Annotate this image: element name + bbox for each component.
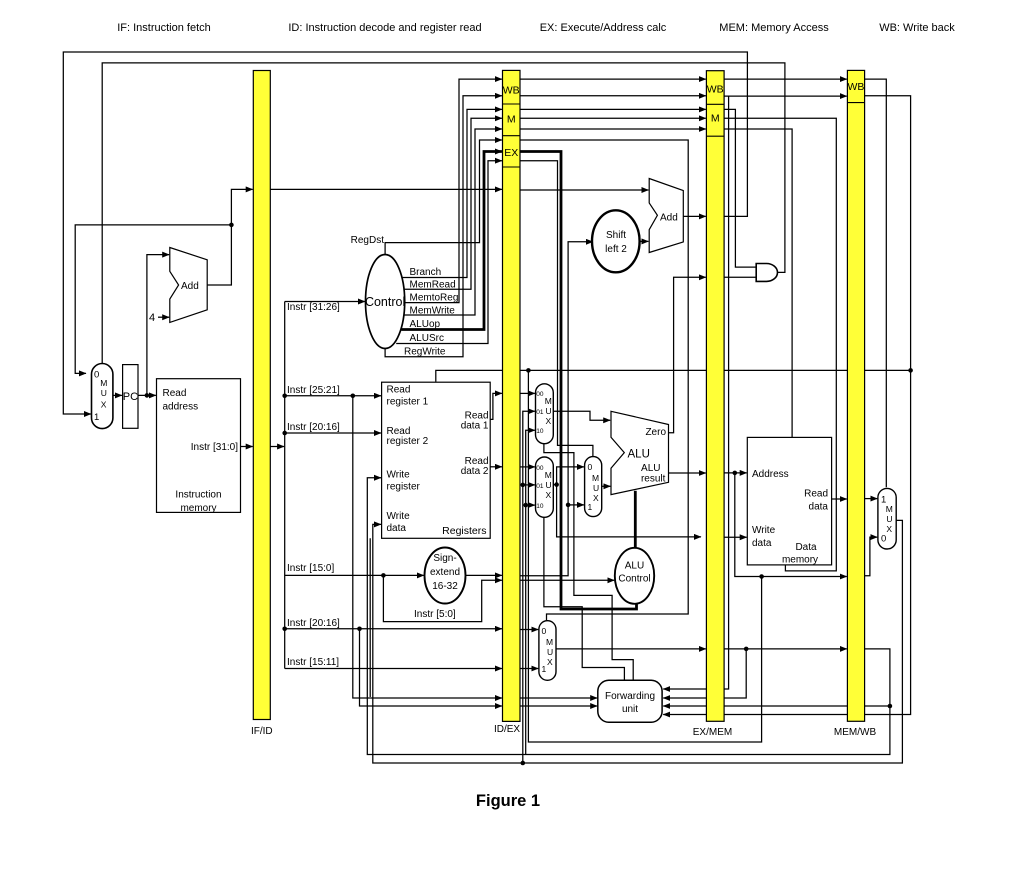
svg-text:address: address — [163, 402, 199, 413]
wire Instr[20:16] to ID/EX — [285, 628, 502, 630]
wire immediate branch to ALUSrc mux input 1 — [568, 504, 584, 506]
svg-text:Control: Control — [365, 295, 405, 309]
pipeline register IF/ID — [253, 71, 270, 720]
svg-text:M: M — [711, 113, 720, 125]
wire write data from EX/MEM to data memory — [724, 536, 747, 538]
wire instruction from IF/ID to bus — [270, 446, 284, 448]
svg-text:RegWrite: RegWrite — [404, 347, 446, 358]
svg-text:M: M — [545, 396, 552, 406]
wire PC+4 from ID/EX to branch Add — [520, 189, 648, 191]
label PC mux — [94, 370, 107, 423]
svg-text:WB: WB — [503, 85, 520, 97]
svg-text:register 2: register 2 — [387, 436, 429, 447]
svg-text:WB: WB — [707, 84, 724, 96]
wire Instr[31:26] to Control — [285, 301, 365, 303]
svg-text:4: 4 — [149, 312, 155, 324]
pipeline register EX/MEM — [706, 71, 724, 722]
wire Rd branch to forwarding unit right input — [663, 705, 890, 707]
svg-text:10: 10 — [536, 428, 544, 435]
svg-text:Instr [15:0]: Instr [15:0] — [287, 563, 334, 574]
wire write-back data forward vertical to mux A input 01 — [523, 411, 535, 763]
wire Instr[25:21] to read register 1 — [285, 395, 381, 397]
adder branch target — [649, 179, 683, 253]
svg-text:Sign-: Sign- — [433, 553, 456, 564]
svg-text:Instr [20:16]: Instr [20:16] — [287, 422, 340, 433]
wire MemWrite from EX/MEM to data memory top — [724, 129, 792, 437]
wire read data 1 from ID/EX to forward mux A — [520, 392, 535, 394]
AND gate branch — [756, 264, 777, 282]
wire MemRead row ID/EX to EX/MEM — [520, 117, 706, 119]
wire constant 4 into Add — [158, 316, 169, 318]
svg-text:X: X — [593, 493, 599, 503]
svg-text:M: M — [507, 114, 516, 126]
svg-text:U: U — [593, 483, 599, 493]
svg-text:Instr [31:0]: Instr [31:0] — [191, 442, 238, 453]
shift left 2 unit — [592, 210, 640, 272]
wire mux B output to write data — [553, 485, 701, 537]
labels mux ALUSrc — [588, 462, 600, 512]
wire read data 2 into ID/EX — [490, 466, 502, 468]
svg-text:ALU: ALU — [641, 463, 660, 474]
svg-text:Forwarding: Forwarding — [605, 691, 655, 702]
wire ALU result forward loop down left and up to RegWrite line — [528, 370, 761, 742]
svg-text:U: U — [546, 406, 552, 416]
wire MemWrite row ID/EX to EX/MEM — [520, 128, 706, 130]
wire EX/MEM forward branch to mux B input 10 — [526, 504, 535, 506]
wire data memory read data to MEM/WB — [832, 498, 847, 500]
svg-text:X: X — [547, 657, 553, 667]
svg-text:Data: Data — [795, 542, 817, 553]
svg-text:1: 1 — [94, 412, 99, 423]
wire mux B output branch to ALUSrc mux input 0 — [557, 467, 584, 485]
wire Add output to IF/ID — [207, 189, 253, 285]
wire ALUSrc control to ID/EX EX — [396, 161, 502, 344]
svg-text:Add: Add — [660, 213, 678, 224]
wire EX/MEM RegWrite branch down to forwarding unit — [663, 96, 728, 689]
svg-text:Figure 1: Figure 1 — [476, 792, 540, 810]
svg-text:M: M — [592, 473, 599, 483]
svg-text:Write: Write — [387, 511, 411, 522]
wire instruction bus vertical — [284, 302, 286, 669]
pipeline register ID/EX — [503, 70, 521, 721]
wire Rs from ID/EX to forwarding unit — [520, 697, 597, 699]
forwarding unit — [598, 680, 662, 722]
svg-text:Write: Write — [752, 525, 776, 536]
svg-text:M: M — [100, 378, 107, 388]
svg-text:left 2: left 2 — [605, 244, 627, 255]
wire ForwardA select from forwarding unit to mux A — [544, 444, 633, 680]
svg-text:EX: EX — [504, 147, 518, 159]
wire Instr[5:0] from ID/EX to ALU control — [520, 579, 615, 581]
wire Rs to ID/EX for forwarding unit — [353, 396, 502, 698]
svg-text:Write: Write — [387, 470, 411, 481]
svg-text:MEM/WB: MEM/WB — [834, 727, 877, 738]
mux forward A — [536, 384, 554, 444]
svg-text:Registers: Registers — [442, 525, 486, 537]
svg-text:1: 1 — [588, 502, 593, 512]
wire sign-extend output to ID/EX — [466, 574, 502, 576]
svg-text:Zero: Zero — [645, 427, 666, 438]
mux PC source — [92, 364, 113, 429]
wire ALU result down to MEM/WB — [735, 473, 847, 577]
svg-text:MemtoReg: MemtoReg — [410, 293, 459, 304]
svg-text:IF/ID: IF/ID — [251, 726, 273, 737]
wire branch Add output into EX/MEM — [683, 215, 706, 217]
svg-text:memory: memory — [180, 503, 216, 514]
svg-text:1: 1 — [542, 664, 547, 674]
wire registers bottom vertical — [369, 538, 371, 697]
wire RegWrite control to ID/EX WB — [385, 96, 502, 357]
data memory — [747, 437, 831, 565]
svg-text:WB: Write back: WB: Write back — [879, 22, 955, 34]
wire PC+4 loop back to PC mux input 0 — [75, 225, 231, 374]
svg-text:register 1: register 1 — [387, 397, 429, 408]
svg-text:M: M — [886, 504, 893, 514]
svg-text:X: X — [886, 524, 892, 534]
wire RegDst mux output into EX/MEM — [556, 648, 706, 650]
svg-text:Read: Read — [163, 388, 187, 399]
wire shift left 2 output to branch Add — [639, 240, 649, 242]
svg-text:memory: memory — [782, 555, 818, 566]
labels mux write-back — [881, 495, 893, 545]
svg-text:Instr [20:16]: Instr [20:16] — [287, 618, 340, 629]
svg-text:00: 00 — [536, 465, 544, 472]
wire immediate from ID/EX up to shift left 2 — [520, 242, 593, 576]
svg-text:unit: unit — [622, 704, 638, 715]
svg-text:Instr [31:26]: Instr [31:26] — [287, 302, 340, 313]
ALU control unit — [615, 548, 654, 604]
svg-text:ALU: ALU — [628, 449, 650, 461]
wire Rd from MEM/WB loop to write register — [367, 478, 890, 755]
wire Instr[15:11] from ID/EX to RegDst mux input 1 — [520, 668, 539, 670]
wire Instr[15:0] to sign extend — [285, 574, 424, 576]
instruction memory — [157, 379, 241, 513]
wire WB row 1 ID/EX to EX/MEM — [520, 78, 706, 80]
svg-text:MemWrite: MemWrite — [410, 306, 456, 317]
svg-text:Instr [5:0]: Instr [5:0] — [414, 609, 456, 620]
wire Branch from EX/MEM down to AND gate — [724, 109, 756, 267]
svg-text:ALUop: ALUop — [410, 319, 441, 330]
svg-text:ID/EX: ID/EX — [494, 724, 520, 735]
svg-text:EX: Execute/Address calc: EX: Execute/Address calc — [540, 22, 667, 34]
svg-text:ALUSrc: ALUSrc — [410, 333, 444, 344]
svg-text:Address: Address — [752, 469, 789, 480]
svg-text:X: X — [101, 400, 107, 410]
adder PC+4 — [170, 248, 207, 323]
wire Rd from EX/MEM to MEM/WB — [724, 648, 847, 650]
svg-text:EX/MEM: EX/MEM — [693, 727, 732, 738]
wire ALU control output to ALU thick — [634, 491, 637, 548]
mux write-back — [878, 488, 896, 549]
wire ALUop thick from ID/EX to ALU control — [520, 152, 637, 610]
registers file — [382, 382, 491, 538]
labels mux forward B — [536, 465, 544, 510]
control unit — [366, 255, 405, 349]
labels mux RegDst — [542, 626, 554, 674]
svg-text:Read: Read — [804, 489, 828, 500]
wire RegDst control to ID/EX EX — [385, 140, 502, 255]
wire PC to instruction memory read address — [137, 394, 156, 396]
wire RegWrite long line to registers top — [436, 370, 911, 381]
wire MemtoReg control to ID/EX WB — [404, 79, 502, 303]
svg-text:WB: WB — [847, 81, 864, 93]
wire MEM/WB read data to write-back mux input 0 — [865, 537, 878, 576]
wire MemRead from EX/MEM to data memory bottom — [724, 118, 836, 571]
svg-text:data 1: data 1 — [461, 421, 489, 432]
mux RegDst write register — [539, 621, 556, 681]
wire Rt to ID/EX for forwarding unit — [360, 629, 502, 706]
wire forward mux A output to ALU — [553, 411, 610, 420]
wire ALUSrc mux output to ALU — [602, 485, 611, 487]
svg-text:Shift: Shift — [606, 230, 626, 241]
svg-text:data: data — [387, 523, 407, 534]
wire PCSrc AND-gate output loop to PC mux select — [102, 63, 785, 363]
wire Rt from ID/EX to forwarding unit — [520, 705, 597, 707]
svg-text:Instruction: Instruction — [175, 490, 221, 501]
svg-text:U: U — [546, 480, 552, 490]
wire ALU result from EX/MEM to data memory address — [724, 472, 747, 474]
wire ALUop control thick to ID/EX EX — [401, 152, 502, 330]
ALU — [611, 411, 669, 494]
wire ForwardB select from forwarding unit to mux B — [544, 517, 625, 680]
svg-text:IF: Instruction fetch: IF: Instruction fetch — [117, 22, 211, 34]
svg-text:data: data — [752, 538, 772, 549]
wire PC mux output to PC — [113, 394, 122, 396]
wire write-back mux output loop to write data — [373, 520, 903, 763]
wire Branch control to ID/EX M — [402, 109, 502, 277]
svg-text:U: U — [547, 647, 553, 657]
svg-text:01: 01 — [536, 483, 544, 490]
svg-text:ALU: ALU — [625, 561, 644, 572]
wire MemRead control to ID/EX M — [404, 118, 502, 289]
svg-text:MemRead: MemRead — [410, 280, 456, 291]
wire ALU zero into EX/MEM — [669, 277, 706, 432]
svg-text:extend: extend — [430, 567, 460, 578]
wire write-back data forward branch to mux B input 01 — [523, 484, 535, 486]
wire ALU result into EX/MEM — [669, 472, 706, 474]
wire EX/MEM forward vertical to mux A input 10 — [526, 430, 535, 754]
svg-text:ID: Instruction decode and reg: ID: Instruction decode and register read — [288, 22, 481, 34]
svg-text:Instr [25:21]: Instr [25:21] — [287, 385, 340, 396]
wire WB row 1 EX/MEM to MEM/WB — [724, 78, 847, 80]
svg-text:00: 00 — [536, 391, 544, 398]
svg-text:16-32: 16-32 — [432, 581, 458, 592]
wire Branch row ID/EX to EX/MEM — [520, 108, 706, 110]
wire Instr[15:11] to ID/EX — [285, 668, 502, 670]
svg-text:Add: Add — [181, 281, 199, 292]
mux ALUSrc — [585, 457, 602, 517]
wire RegDst from ID/EX to RegDst mux select — [520, 140, 688, 620]
wire read data 1 into ID/EX — [490, 393, 502, 419]
svg-text:0: 0 — [881, 534, 886, 545]
svg-text:Control: Control — [618, 574, 650, 585]
svg-text:Instr [15:11]: Instr [15:11] — [287, 657, 339, 668]
wire ALUSrc from ID/EX to ALUSrc mux select — [520, 161, 593, 457]
svg-text:data: data — [809, 502, 829, 513]
pipeline register MEM/WB — [847, 70, 864, 721]
svg-text:10: 10 — [536, 503, 544, 510]
svg-text:Read: Read — [387, 385, 411, 396]
wire MEM/WB RegWrite right loop down to forwarding unit — [663, 96, 910, 715]
labels mux forward A — [536, 391, 544, 435]
wire PC+4 through IF/ID — [270, 188, 502, 190]
register PC — [123, 365, 138, 429]
wire WB row 2 ID/EX to EX/MEM — [520, 95, 706, 97]
wire read data 2 from ID/EX to forward mux B — [520, 466, 535, 468]
svg-text:01: 01 — [536, 409, 544, 416]
svg-text:X: X — [546, 490, 552, 500]
mux forward B — [536, 457, 554, 517]
svg-text:result: result — [641, 474, 666, 485]
svg-text:0: 0 — [94, 370, 99, 381]
wire instruction memory output to IF/ID — [241, 446, 253, 448]
wire Instr[5:0] to ID/EX — [383, 575, 502, 621]
svg-text:register: register — [387, 482, 421, 493]
wire branch-target loop EX/MEM to PC mux input 1 — [63, 52, 747, 414]
wire WB row 1 MEM/WB to write-back mux select — [865, 79, 887, 487]
svg-text:0: 0 — [588, 462, 593, 472]
wire WB row 2 EX/MEM to MEM/WB — [724, 95, 847, 97]
svg-text:data 2: data 2 — [461, 466, 489, 477]
svg-text:M: M — [545, 470, 552, 480]
svg-text:MEM: Memory Access: MEM: Memory Access — [719, 22, 829, 34]
svg-text:M: M — [546, 637, 553, 647]
svg-text:RegDst: RegDst — [351, 235, 385, 246]
svg-text:Branch: Branch — [410, 267, 442, 278]
svg-text:U: U — [886, 514, 892, 524]
wire zero from EX/MEM to AND gate — [724, 276, 756, 278]
wire PC to Add input — [147, 255, 169, 396]
wire Instr[20:16] to read register 2 — [285, 432, 381, 434]
wire MEM/WB ALU result to write-back mux input 1 — [865, 498, 878, 500]
svg-text:X: X — [546, 416, 552, 426]
wire Rd branch down to forwarding unit — [663, 649, 746, 698]
svg-text:U: U — [101, 388, 107, 398]
sign extend unit — [425, 548, 466, 604]
wire MemWrite control to ID/EX M — [404, 129, 502, 315]
svg-text:0: 0 — [542, 626, 547, 636]
svg-text:PC: PC — [123, 391, 138, 403]
wire Instr[20:16] from ID/EX to RegDst mux input 0 — [520, 629, 539, 631]
